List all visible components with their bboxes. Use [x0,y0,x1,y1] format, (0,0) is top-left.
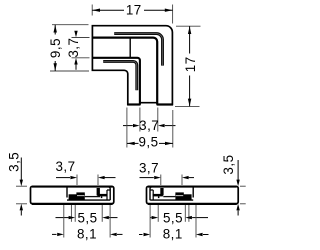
insert profile left post [66,187,68,198]
slot slab right [175,194,191,200]
arrow right [165,9,173,12]
raised dark bar [175,192,183,195]
white pinstripe in slab [77,195,84,197]
svg-text:3,7: 3,7 [139,161,159,176]
arrow left [92,9,100,12]
svg-text:3,7: 3,7 [66,38,81,58]
dimension 3,7 bottom of top view [140,108,158,132]
insert profile right post [192,187,194,198]
dimension 17 right [175,26,201,106]
thick bottom edge of bar [32,203,113,205]
insert profile left side outer [150,187,152,201]
dimension 3,7 right view [161,175,182,186]
inner wall line lower [92,58,139,104]
dim line 17 top [92,9,124,11]
extension line left [91,5,93,16]
thick top edge of bar [148,186,237,188]
channel end line [129,39,131,58]
bar outline [147,186,239,204]
svg-text:5,5: 5,5 [163,211,183,226]
dimension 3,7 left view [77,175,98,186]
svg-text:3,7: 3,7 [139,118,159,133]
dimension 8,1 left view [64,205,110,238]
thin mid line [85,196,100,198]
svg-text:9,5: 9,5 [48,38,63,58]
thick top edge of bar [32,186,113,188]
thick bottom edge right segment [157,103,173,105]
slot slab right leg [101,196,103,198]
svg-text:3,7: 3,7 [55,159,75,174]
dimension 8,1 right view [150,205,196,238]
dimension 5,5 left view [71,205,102,222]
svg-text:8,1: 8,1 [77,227,97,242]
bar outline [31,186,114,204]
dimension 9,5 bottom of top view [127,108,173,148]
hump left connector [160,188,163,195]
slot band outer (top arm to right arm) [114,34,162,66]
slot band inner (bottom arm to left of vertical arm) [103,61,137,90]
slot slab left top bar [153,194,163,197]
hump right connector [97,188,100,195]
extension line right [172,5,174,24]
outer contour of L-profile [92,26,172,105]
thick bottom edge left segment [127,103,140,105]
slot slab left [69,194,85,200]
dimension 17 top [92,5,172,24]
svg-text:5,5: 5,5 [77,211,97,226]
dimension 9,5 left [50,25,89,71]
insert base line [150,199,193,201]
raised dark bar [76,192,84,195]
slot slab right top bar [97,194,107,197]
thick bottom edge of bar [148,203,237,205]
svg-text:3,5: 3,5 [221,154,236,174]
dimension 3,5 left view [20,158,23,216]
insert profile right side inner [107,190,110,200]
insert profile right side outer [108,187,110,201]
svg-text:9,5: 9,5 [138,134,158,149]
svg-text:3,5: 3,5 [6,152,21,172]
dimension 3,5 right view [236,160,239,216]
inner wall line upper [92,38,157,105]
slot slab left leg [158,196,160,198]
svg-text:8,1: 8,1 [163,227,183,242]
svg-text:17: 17 [126,2,142,17]
white pinstripe in slab [176,195,183,197]
insert profile left side inner [150,190,153,200]
svg-text:17: 17 [183,56,198,72]
thin mid line [163,196,175,198]
dimension 3,7 left [72,38,90,58]
insert base line [67,199,110,201]
dimension 5,5 right view [158,205,189,222]
